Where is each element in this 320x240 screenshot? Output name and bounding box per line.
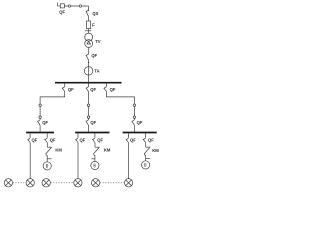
svg-text:F: F <box>92 22 95 27</box>
tick <box>146 158 151 160</box>
wire <box>46 156 48 162</box>
lighting drop A2 <box>77 133 79 138</box>
motor drop B1 <box>46 133 48 138</box>
junction dot <box>88 62 89 63</box>
wire <box>58 5 61 7</box>
wire <box>128 143 130 179</box>
breaker QF1 box <box>60 4 64 8</box>
wire <box>77 143 79 179</box>
svg-text:QF: QF <box>148 137 154 142</box>
breaker QF a2 <box>75 138 78 143</box>
lamp L6 <box>124 179 132 187</box>
svg-text:QF: QF <box>42 120 48 125</box>
breaker QF s3 <box>132 118 135 125</box>
motor drop B2 <box>94 133 96 138</box>
wire <box>88 17 90 21</box>
svg-text:QF: QF <box>137 120 143 125</box>
svg-text:QF: QF <box>59 9 65 14</box>
wire <box>145 156 147 161</box>
fuse F <box>87 21 91 29</box>
lamp L3 <box>42 179 50 187</box>
svg-text:QF: QF <box>90 87 96 92</box>
breaker QF b2 <box>92 138 95 143</box>
breaker QF s2 <box>86 118 89 125</box>
wire corner <box>88 6 90 10</box>
svg-text:QF: QF <box>110 87 116 92</box>
contactor KM3 <box>144 147 150 155</box>
contact <box>133 116 135 118</box>
contact <box>87 116 89 118</box>
busbar section 1 <box>26 132 54 134</box>
motor drop B3 <box>145 133 147 138</box>
svg-text:TV: TV <box>95 39 101 44</box>
svg-text:QF: QF <box>68 87 74 92</box>
supply stub <box>57 3 59 7</box>
feeder QF drop 2 <box>86 83 89 91</box>
wire <box>94 156 96 162</box>
svg-text:TA: TA <box>94 68 99 73</box>
transformer TV winding 1 <box>85 33 93 41</box>
pump P1 <box>43 162 51 170</box>
wire <box>133 107 135 117</box>
lighting drop A1 <box>29 133 31 138</box>
wire <box>39 125 41 131</box>
contact <box>133 104 135 106</box>
wire <box>88 47 90 54</box>
tick <box>91 158 95 160</box>
tick <box>47 158 51 160</box>
dashed wire <box>13 182 26 184</box>
wire <box>133 125 135 131</box>
svg-text:QF: QF <box>80 138 86 143</box>
contactor KM2 <box>94 147 100 155</box>
wire <box>88 29 90 34</box>
breaker QF s1 <box>37 118 40 125</box>
wire <box>88 125 90 131</box>
svg-text:QF: QF <box>32 138 38 143</box>
svg-text:QF: QF <box>91 53 97 58</box>
contactor KM1 <box>46 147 52 155</box>
wire <box>88 92 90 104</box>
svg-text:QF: QF <box>130 138 136 143</box>
lamp L4 <box>74 179 82 187</box>
breaker QF2 <box>86 54 89 60</box>
svg-text:KM: KM <box>55 147 62 152</box>
lamp L2 <box>26 179 34 187</box>
svg-text:KM: KM <box>104 148 111 153</box>
svg-text:QF: QF <box>90 120 96 125</box>
feeder QF drop 3 <box>104 83 107 91</box>
disconnector QS <box>86 10 89 17</box>
main busbar <box>55 82 122 84</box>
lighting drop A3 <box>128 133 130 138</box>
feeder QF drop 1 <box>62 83 65 91</box>
tick <box>85 30 91 32</box>
breaker QF a3 <box>126 138 129 143</box>
svg-text:KM: KM <box>152 148 159 153</box>
wire <box>39 107 41 117</box>
pump P3 <box>142 161 150 169</box>
lamp L1 <box>4 179 12 187</box>
wire <box>46 143 48 147</box>
dashed wire <box>51 182 74 184</box>
wire <box>40 92 65 104</box>
wire <box>29 143 31 179</box>
contact <box>68 5 70 7</box>
wire <box>106 92 134 104</box>
breaker QF a1 <box>28 138 31 143</box>
wire <box>64 5 88 7</box>
svg-text:QF: QF <box>50 137 56 142</box>
svg-text:QF: QF <box>97 137 103 142</box>
svg-text:QS: QS <box>92 11 98 16</box>
delta winding mark <box>87 41 91 44</box>
busbar section 2 <box>75 132 109 134</box>
pump P2 <box>91 161 99 169</box>
wire <box>88 60 90 82</box>
wire <box>145 143 147 147</box>
contact <box>39 116 41 118</box>
dashed wire <box>100 182 124 184</box>
contact <box>87 104 89 106</box>
breaker QF b3 <box>143 138 146 143</box>
current transformer TA <box>84 67 93 76</box>
busbar section 3 <box>123 132 157 134</box>
transformer TV winding 2 <box>85 40 93 48</box>
contact <box>39 104 41 106</box>
breaker QF b1 <box>45 138 48 143</box>
contact <box>79 5 81 7</box>
lamp L5 <box>91 179 99 187</box>
wire <box>94 143 96 147</box>
wire <box>88 107 90 117</box>
